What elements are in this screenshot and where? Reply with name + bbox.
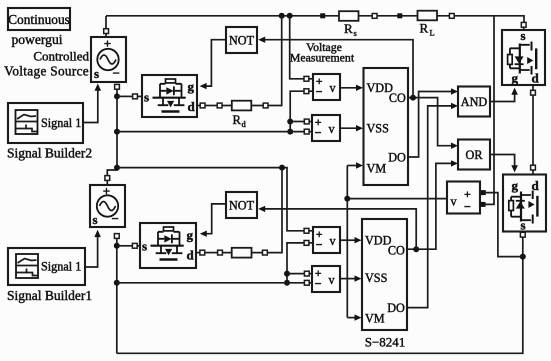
port: QB s <box>520 232 525 238</box>
port: QT d <box>531 85 536 95</box>
svg-text:VM: VM <box>367 162 387 176</box>
svg-text:R: R <box>420 21 429 36</box>
svg-text:VSS: VSS <box>365 271 388 285</box>
port: Rd2 left <box>218 250 223 255</box>
svg-text:powergui: powergui <box>11 32 62 47</box>
svg-text:Controlled: Controlled <box>33 49 89 64</box>
svg-text:−: − <box>112 211 119 226</box>
Signal Builder1 block <box>8 248 85 285</box>
svg-text:d: d <box>188 99 196 114</box>
wire: OR output to MOSFET QB g (arrow down) <box>490 155 518 173</box>
node: junction lower bus <box>114 165 120 171</box>
svg-text:Signal Builder2: Signal Builder2 <box>7 146 92 161</box>
port: AC2 + <box>105 176 110 185</box>
svg-text:s: s <box>142 239 147 254</box>
wire: chain to VM2a + port <box>290 121 304 123</box>
Signal Builder2 label <box>7 146 92 161</box>
MOSFET Q2 block <box>140 223 196 268</box>
wire: VM1a - down chain <box>290 91 304 131</box>
wire: VM2a output to VSS1 (arrow) <box>340 125 363 131</box>
svg-text:s: s <box>144 90 149 105</box>
svg-text:VSS: VSS <box>367 122 390 136</box>
MOSFET QB icon <box>509 191 538 224</box>
node: CO1 junction <box>410 95 416 101</box>
node: lower bus junction to Rd2 branch <box>279 165 285 171</box>
svg-text:NOT: NOT <box>229 199 255 213</box>
MOSFET Q2 icon <box>151 227 184 260</box>
OR gate <box>458 140 490 170</box>
svg-text:s: s <box>93 212 98 227</box>
wire: VM3 - up to top bus <box>486 16 495 205</box>
lower bus wire (battery2 + node) <box>117 168 304 231</box>
wire: chain to VM2b + port <box>287 273 304 275</box>
svg-text:NOT: NOT <box>229 34 255 48</box>
svg-text:v: v <box>330 234 337 248</box>
svg-text:CO: CO <box>388 244 405 258</box>
svg-text:−: − <box>464 200 471 214</box>
S-8241 block U1 (upper) <box>364 68 409 185</box>
node: CO2 junction <box>413 246 419 252</box>
wire: CO1 to NOT1 input (arrow) <box>258 37 413 98</box>
voltage measurement block VM1a <box>313 74 340 100</box>
svg-text:s: s <box>94 66 99 81</box>
wire: CO2 output to OR in2 <box>407 160 458 249</box>
svg-text:v: v <box>329 122 336 136</box>
port: RL right <box>449 14 454 19</box>
port: QT s <box>521 22 526 30</box>
svg-text:S−8241: S−8241 <box>365 335 406 350</box>
wire: CO1 output to OR in1 <box>408 98 458 149</box>
svg-text:L: L <box>430 28 435 38</box>
port: VM1b + <box>304 228 313 233</box>
svg-text:OR: OR <box>466 148 484 162</box>
resistor RL <box>418 11 438 38</box>
wire: VM1a output to VDD1 (arrow) <box>340 85 363 91</box>
svg-text:−: − <box>315 126 322 140</box>
wire: NOT2 output to MOSFET2 g (arrow) <box>200 204 226 237</box>
port: Rs right <box>372 14 377 19</box>
port: MOSFET2 s <box>132 243 140 248</box>
port: VM2b + <box>304 271 312 276</box>
svg-text:−: − <box>315 277 322 291</box>
svg-text:d: d <box>532 71 540 86</box>
port: MOSFET1 s <box>133 94 142 99</box>
MOSFET QT icon <box>508 42 537 75</box>
NOT gate 1 <box>226 27 257 53</box>
resistor Rs branch ports <box>320 13 325 18</box>
port: VM2a + <box>304 119 312 124</box>
port: VM2a - <box>304 129 312 134</box>
wire: DO1 output to AND in1 <box>408 88 458 157</box>
port: VM2b - <box>304 280 312 285</box>
wire: VM1b - down chain <box>287 243 304 283</box>
MOSFET QT block (top right) <box>502 28 545 86</box>
wire: lower bus to Rd2 <box>267 168 282 253</box>
svg-text:v: v <box>329 273 336 287</box>
wire: VM2b output to VSS2 (arrow) <box>340 275 362 281</box>
node: top bus junction to VM1+ <box>287 13 293 19</box>
port: AC1 - terminal <box>115 84 120 89</box>
node: top bus junction to Rd branch <box>279 13 285 19</box>
svg-text:g: g <box>187 228 194 243</box>
svg-text:v: v <box>451 195 458 209</box>
wire: Rd1 to top bus <box>268 16 282 106</box>
node: chain to VM2b - <box>284 280 290 286</box>
powergui block (Continuous) <box>8 8 70 30</box>
svg-text:s: s <box>354 28 357 38</box>
svg-text:Signal 1: Signal 1 <box>41 260 81 274</box>
node: chain to VM2b + <box>284 271 290 277</box>
wire: bus to VM1a + <box>290 16 304 79</box>
Controlled Voltage Source label <box>4 49 89 79</box>
svg-text:−: − <box>113 66 120 81</box>
svg-text:d: d <box>242 119 247 129</box>
svg-text:CO: CO <box>389 91 406 105</box>
svg-text:−: − <box>316 85 323 99</box>
port: VM3 - <box>481 202 486 207</box>
port: VM1a - <box>304 89 313 94</box>
svg-text:Measurement: Measurement <box>290 51 355 65</box>
node: junction to VM chain upper <box>114 129 120 135</box>
svg-text:R: R <box>233 113 242 127</box>
resistor Rd1 <box>222 101 263 129</box>
wire: QB s down to bottom bus <box>117 237 523 353</box>
port: VM1a + <box>304 76 313 81</box>
Signal Builder2 block <box>8 103 83 143</box>
svg-text:s: s <box>521 28 526 43</box>
wire: QT d to QB d <box>532 95 534 165</box>
svg-text:Signal 1: Signal 1 <box>41 116 81 130</box>
S-8241 label <box>365 335 406 350</box>
port: QB d <box>531 165 536 174</box>
resistor Rd2 <box>222 248 262 258</box>
wire: NOT1 output to MOSFET1 g (arrow) <box>200 40 226 90</box>
NOT gate 2 <box>226 192 257 218</box>
wire: chain to VM2a - port and left to battery node <box>117 131 304 133</box>
Voltage Measurement label <box>290 40 355 65</box>
wire: to MOSFET2 s <box>117 245 133 247</box>
port: MOSFET1 d <box>197 103 205 108</box>
port: Rd1 left <box>217 103 222 108</box>
svg-text:DO: DO <box>388 150 406 164</box>
wire: AND output to MOSFET QT g (arrow up) <box>490 88 518 102</box>
svg-text:DO: DO <box>387 301 405 315</box>
resistor Rs <box>339 11 359 38</box>
wire: VM1b output to VDD2 (arrow) <box>340 237 362 243</box>
wire: s node to VM3 + <box>486 193 523 257</box>
svg-text:VM: VM <box>365 312 385 326</box>
node: junction to MOSFET2 s <box>114 243 120 249</box>
svg-text:R: R <box>344 21 353 36</box>
wire: d to Rd1 <box>205 105 217 107</box>
svg-text:v: v <box>330 81 337 95</box>
node: chain to VM2a + <box>287 119 293 125</box>
svg-text:g: g <box>188 79 195 94</box>
port: RL left <box>397 13 402 18</box>
port: VM1b - <box>304 241 313 246</box>
wire: Signal Builder2 output to AC1 s input (arrow up) <box>83 84 101 123</box>
voltage measurement block VM3 <box>447 182 480 214</box>
top bus wire (battery1 + node) <box>106 16 524 27</box>
MOSFET Q1 block <box>142 75 197 117</box>
AND gate <box>458 87 490 117</box>
wire: battery1 - node (AC1- down, to MOSFET1 s, to VM2a-, to battery2 +) <box>107 89 117 175</box>
lower AC source (battery cell 2) <box>90 184 125 228</box>
MOSFET QB block (bottom right) <box>503 175 546 233</box>
svg-text:Signal Builder1: Signal Builder1 <box>7 288 92 303</box>
port: VM3 + <box>481 190 486 195</box>
S-8241 block U2 (lower) <box>362 219 407 330</box>
voltage measurement block VM2a <box>312 115 340 141</box>
svg-text:g: g <box>512 71 519 86</box>
wire: DO2 output to AND in2 <box>407 103 458 308</box>
port square: AC1 + port <box>104 29 109 34</box>
wire: chain to VM2b - port and left to battery2 node <box>117 282 305 284</box>
svg-text:d: d <box>187 248 195 263</box>
wire: to MOSFET1 s port <box>117 95 133 97</box>
Controlled Voltage Source block (upper AC source) <box>91 36 126 82</box>
port: MOSFET2 d <box>196 250 205 255</box>
node: junction to VM chain lower <box>114 280 120 286</box>
node: junction to MOSFET1 s <box>114 93 120 99</box>
voltage measurement block VM1b <box>313 227 340 253</box>
node: VM route junction <box>344 196 350 202</box>
port: Rd1 right <box>263 103 268 108</box>
svg-text:Continuous: Continuous <box>8 12 70 27</box>
svg-text:−: − <box>316 238 323 252</box>
wire: battery2 - node down, bottom rail <box>116 238 118 353</box>
node: QB s junction <box>520 254 526 260</box>
voltage measurement block VM2b <box>312 266 340 292</box>
MOSFET Q1 icon <box>153 79 186 112</box>
wire: CO2 to NOT2 input (arrow) <box>258 206 416 250</box>
port: AC2 - <box>114 234 119 239</box>
svg-text:g: g <box>512 178 519 193</box>
node: chain to VM2a - <box>287 129 293 135</box>
wire: VM3 output to VM ports of U1 and U2 <box>347 162 447 320</box>
svg-text:Voltage Source: Voltage Source <box>4 64 89 79</box>
wire: AC1 + terminal up to top bus <box>105 16 107 37</box>
wire: d to Rd2 <box>205 252 218 254</box>
wire: Signal Builder1 output to AC2 s input (arrow up) <box>85 230 101 267</box>
Signal Builder1 label <box>7 288 92 303</box>
port: Rd2 right <box>263 250 268 255</box>
svg-text:AND: AND <box>461 95 488 109</box>
powergui label <box>11 32 62 47</box>
